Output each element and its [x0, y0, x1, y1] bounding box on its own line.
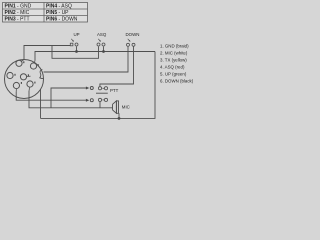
svg-text:PIN5 - UP: PIN5 - UP	[46, 10, 69, 16]
svg-text:PIN4 - ASQ: PIN4 - ASQ	[46, 3, 72, 9]
svg-text:DOWN: DOWN	[126, 32, 140, 37]
svg-text:PTT: PTT	[110, 88, 119, 93]
svg-text:PIN1 - GND: PIN1 - GND	[5, 3, 32, 9]
svg-text:ASQ: ASQ	[97, 32, 107, 37]
svg-text:PIN6 - DOWN: PIN6 - DOWN	[46, 16, 78, 22]
svg-text:MIC: MIC	[122, 104, 130, 109]
svg-text:PIN3 - PTT: PIN3 - PTT	[5, 16, 30, 22]
svg-text:6. DOWN (black): 6. DOWN (black)	[160, 79, 194, 84]
svg-text:5. UP (green): 5. UP (green)	[160, 72, 187, 77]
svg-text:3. TX (yellow): 3. TX (yellow)	[160, 58, 187, 63]
svg-text:4. ASQ (red): 4. ASQ (red)	[160, 65, 185, 70]
svg-text:UP: UP	[74, 32, 80, 37]
svg-text:PIN2 - MIC: PIN2 - MIC	[5, 10, 30, 16]
svg-text:2. MIC (white): 2. MIC (white)	[160, 51, 188, 56]
svg-text:1. GND (braid): 1. GND (braid)	[160, 44, 189, 49]
